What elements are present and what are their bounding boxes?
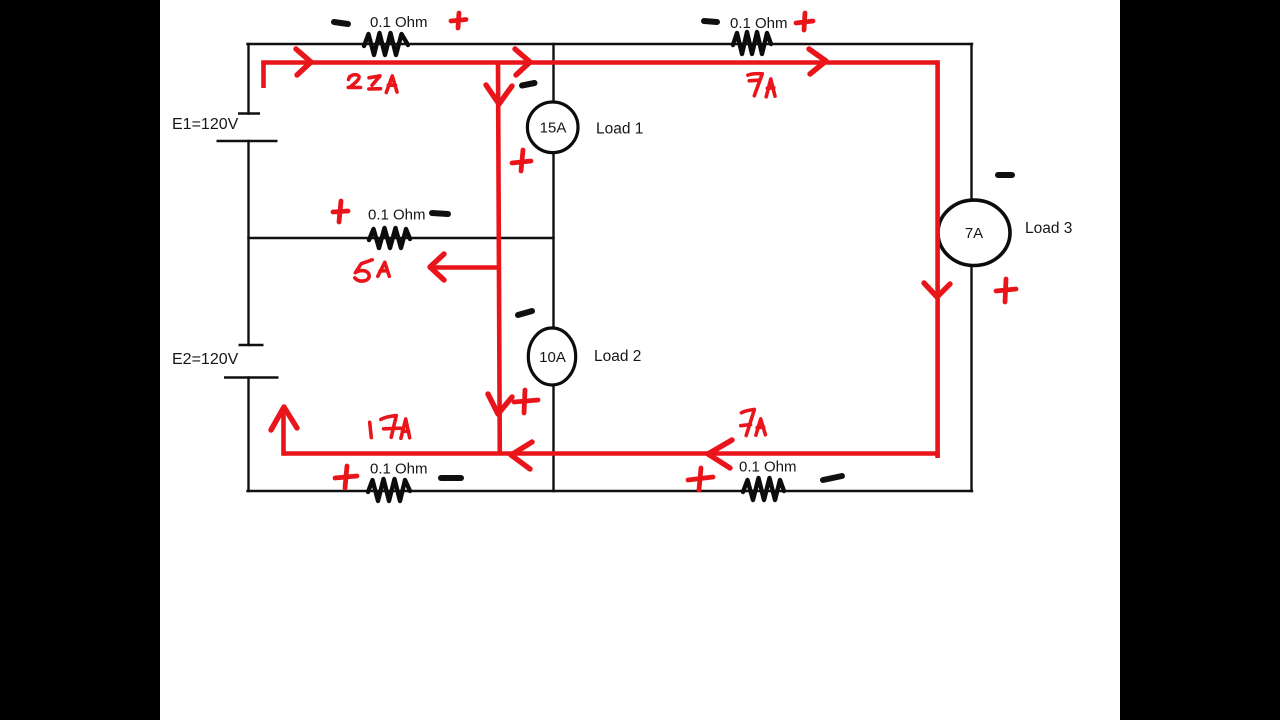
svg-text:7A: 7A (965, 225, 983, 242)
plus P6 below load3 (996, 279, 1016, 302)
red wire right vertical (935, 60, 940, 458)
arrow left A7 (430, 254, 444, 280)
red wire left up tail (281, 409, 286, 456)
load 1 circle (527, 102, 578, 153)
minus M1 top-left (334, 22, 348, 24)
svg-text:Load 3: Load 3 (1025, 220, 1072, 237)
resistor R1 top-left squiggle (364, 33, 408, 55)
wire left vertical upper (247, 44, 249, 114)
wire neutral (249, 237, 554, 239)
load 2 circle (528, 328, 575, 385)
svg-text:0.1 Ohm: 0.1 Ohm (730, 15, 788, 32)
arrow up A10 (271, 407, 297, 430)
plus P1 top-left (451, 13, 466, 28)
svg-text:0.1 Ohm: 0.1 Ohm (370, 14, 428, 31)
wire top bus (248, 43, 973, 45)
wire left vertical lower (247, 378, 249, 492)
svg-text:Load 2: Load 2 (594, 348, 641, 365)
plus P2 top-right (796, 13, 813, 30)
plus P7 bottom-left (335, 466, 357, 488)
plus P3 below load1 (512, 150, 531, 171)
arrow left A9 (511, 442, 532, 469)
svg-text:Load 1: Load 1 (596, 121, 643, 138)
arrow right A1 (296, 49, 311, 75)
handwriting 5A (355, 260, 372, 281)
plus P5 near load2 bottom (514, 390, 538, 413)
red wire top tail (261, 63, 266, 89)
minus M8 bottom-right (823, 476, 842, 480)
arrow down A5 (488, 394, 512, 414)
red wire top horizontal (261, 60, 937, 65)
red wire bottom horizontal (284, 451, 940, 456)
wire middle vertical center (552, 152, 554, 329)
red wire middle vertical (498, 63, 500, 456)
resistor R4 bottom-left squiggle (368, 479, 410, 501)
wire left vertical middle (247, 141, 249, 345)
resistor R3 neutral squiggle (369, 228, 410, 248)
load 3 circle (938, 200, 1010, 265)
handwriting 7A top-right (748, 74, 762, 96)
video white area (160, 0, 1120, 720)
arrow left A8 (708, 440, 732, 468)
arrow right A2 (515, 49, 530, 75)
minus M7 bottom-left (441, 475, 461, 481)
battery E2 (239, 344, 264, 347)
svg-text:0.1 Ohm: 0.1 Ohm (368, 207, 426, 224)
minus M6 above load3 (998, 172, 1012, 178)
minus M5 above load2 (518, 311, 532, 315)
arrow down A6 (924, 283, 950, 297)
arrow down A4 (486, 85, 512, 104)
red wire neutral branch (430, 265, 499, 270)
plus P4 neutral left (333, 201, 348, 222)
svg-text:0.1 Ohm: 0.1 Ohm (370, 461, 428, 478)
wire middle vertical bottom (552, 385, 554, 492)
handwriting 17A (370, 422, 372, 437)
plus P8 bottom-right (688, 468, 713, 490)
wire bottom bus (248, 490, 973, 492)
minus M2 top-right (704, 21, 717, 22)
wire middle vertical top (552, 44, 554, 103)
svg-text:E2=120V: E2=120V (172, 351, 239, 368)
handwriting 7A bottom-right (741, 409, 755, 435)
minus M4 neutral right (432, 213, 448, 214)
svg-text:10A: 10A (539, 349, 566, 366)
wire right vertical top (970, 44, 972, 201)
handwriting 22A (348, 75, 360, 88)
resistor R2 top-right squiggle (733, 32, 771, 54)
svg-text:E1=120V: E1=120V (172, 116, 239, 133)
wire right vertical bottom (970, 265, 972, 491)
battery E1 (238, 112, 260, 115)
arrow right A3 (809, 49, 826, 74)
svg-text:0.1 Ohm: 0.1 Ohm (739, 459, 797, 476)
resistor R5 bottom-right squiggle (743, 478, 784, 500)
svg-text:15A: 15A (540, 120, 567, 137)
minus M3 below top bus (522, 83, 535, 86)
